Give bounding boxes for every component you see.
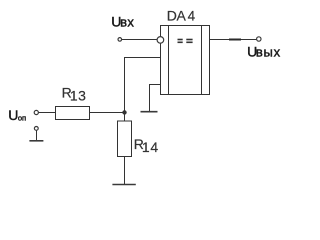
svg-text:Uвых: Uвых [247,44,281,60]
svg-text:DA4: DA4 [167,8,196,24]
svg-text:Uвх: Uвх [111,14,134,30]
